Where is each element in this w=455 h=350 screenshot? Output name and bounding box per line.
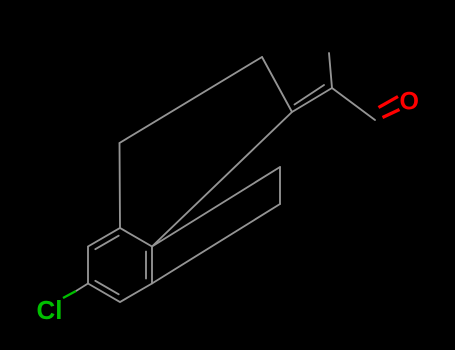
svg-text:O: O [400, 88, 419, 116]
svg-text:Cl: Cl [37, 295, 63, 325]
